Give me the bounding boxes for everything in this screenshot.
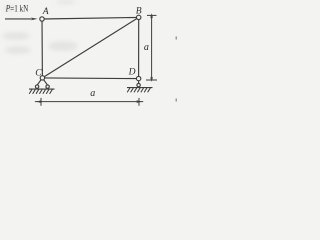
support C left roller circle <box>35 85 38 88</box>
bottom dimension extension tick right <box>138 98 140 106</box>
support D stem <box>138 79 140 86</box>
support C ground hatching <box>29 89 52 94</box>
member AC left vertical <box>41 19 43 78</box>
support C left leg <box>37 78 42 85</box>
bottom dimension arrow left <box>36 100 42 103</box>
member BD right vertical <box>138 17 140 78</box>
svg-text:a: a <box>144 42 149 53</box>
right dimension arrow down <box>150 77 153 82</box>
support D roller circle <box>137 83 140 86</box>
svg-text:a: a <box>90 88 95 99</box>
svg-text:B: B <box>136 6 142 17</box>
node D hinge circle <box>136 76 140 80</box>
load arrow P line <box>5 18 32 20</box>
load arrow P head <box>31 18 38 21</box>
right dimension extension tick bottom <box>146 79 157 81</box>
support C ground line <box>29 88 55 90</box>
svg-text:D: D <box>128 67 136 78</box>
svg-text:P=1 kN: P=1 kN <box>5 4 28 15</box>
support D ground line <box>127 87 153 89</box>
page edge tick right lower <box>176 99 178 102</box>
support C right leg <box>42 78 47 85</box>
node B hinge circle <box>137 15 141 19</box>
right dimension line <box>151 15 153 81</box>
member AB top chord <box>42 17 139 19</box>
member CD bottom chord <box>42 77 138 80</box>
svg-text:C: C <box>35 67 42 78</box>
bottom dimension arrow right <box>136 100 142 103</box>
bottom dimension line <box>35 101 143 103</box>
member CB diagonal <box>42 17 138 78</box>
paper background <box>0 0 177 124</box>
svg-text:A: A <box>42 6 49 17</box>
bottom dimension extension tick left <box>40 98 42 106</box>
page edge tick right upper <box>176 37 178 40</box>
faint scan bleed-through smudges <box>2 0 78 54</box>
right dimension extension tick top <box>147 14 157 16</box>
support C right roller circle <box>46 85 49 88</box>
node A hinge circle <box>40 17 44 21</box>
right dimension arrow up <box>150 13 153 18</box>
node C hinge circle <box>40 76 44 80</box>
support D ground hatching <box>127 88 150 93</box>
